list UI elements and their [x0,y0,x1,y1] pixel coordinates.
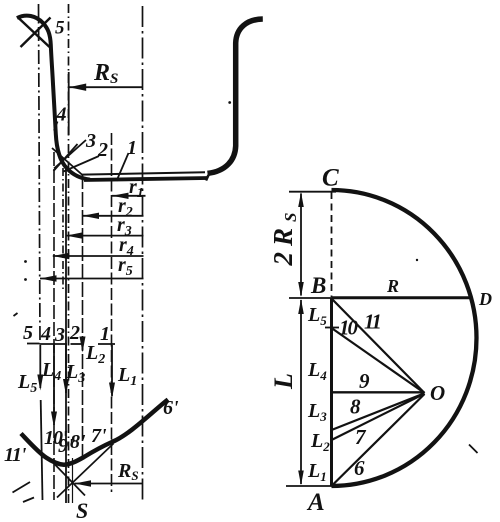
svg-text:8: 8 [350,395,361,419]
r4 arrowhead [53,253,70,259]
tick row segment a [27,343,40,345]
svg-text:10: 10 [339,316,359,340]
dashed C-B line [331,192,333,297]
svg-text:5: 5 [23,322,33,344]
X mark fillet stroke 1 [52,148,83,176]
r5 dimension line [40,278,144,280]
cup wall profile (thick) [208,19,263,173]
svg-text:3: 3 [54,324,65,346]
tick row segment c [71,343,83,345]
svg-text:O: O [430,381,445,405]
L3 arrow shaft [65,345,67,393]
B tick [289,297,332,299]
pass line 4 [53,152,55,500]
axis tick L5/L4 [325,327,339,329]
stray dash left margin [14,313,18,316]
svg-text:L4: L4 [307,359,327,383]
2Rs dimension line [300,194,302,296]
svg-text:2: 2 [69,322,80,344]
L2 arrow shaft [82,345,84,350]
leader 4 [54,122,58,131]
fan line 9 [332,391,425,393]
L5 arrow shaft [39,345,41,388]
L dimension line [300,300,302,484]
r4 dimension line [53,255,144,257]
svg-text:L5: L5 [307,304,327,328]
fan line 6 [332,394,425,486]
pass line 3 [65,166,67,503]
centerline axis B (x=69 dash-dot) [68,4,70,505]
extension line at Rs arrow [68,72,70,135]
fan line 11 [332,299,425,394]
tick row segment b [40,343,68,345]
fan line 10 [332,328,425,393]
svg-text:L2: L2 [310,430,330,454]
stray dot left margin 2 [24,278,27,281]
axis B-A thick [330,298,333,487]
short dash-dot centerline in r-dim zone [62,168,64,292]
pass line 2 [82,174,84,457]
svg-text:6: 6 [354,456,365,480]
stray diagonal mark bottom right [469,445,478,454]
svg-text:6': 6' [163,397,179,419]
sheet edge end blob [206,175,209,181]
svg-text:2RS: 2RS [268,207,300,267]
leader 3 [54,140,86,169]
leader 2 [64,156,100,172]
svg-text:L1: L1 [117,364,137,389]
svg-text:L4: L4 [41,359,61,384]
r5 arrowhead [40,275,57,281]
svg-text:L3: L3 [307,400,327,424]
C tick [289,191,336,193]
svg-text:L5: L5 [17,371,37,396]
S cross stroke [53,462,86,496]
2Rs top arrowhead [298,192,304,207]
leader 1 [117,153,129,181]
S ray to 7' [57,444,114,498]
r2 arrowhead [83,213,100,219]
developed curve 6'-11' (thick) [21,400,168,465]
cup bottom inner thin line [82,172,205,174]
2Rs bottom arrowhead [298,282,304,297]
svg-text:L1: L1 [307,460,327,484]
svg-text:11: 11 [364,310,380,334]
X mark top stroke 2 [21,18,51,48]
r3 arrowhead [66,232,83,238]
tick row segment d [98,343,115,345]
svg-text:8': 8' [70,431,86,453]
svg-text:7: 7 [355,425,367,449]
L4 arrow shaft [53,345,55,425]
cup bottom outer thick line [84,178,208,180]
svg-text:RS: RS [117,460,139,483]
R line B-D thick [332,296,472,299]
r2 dimension line [83,215,144,217]
fan line 7 [332,394,425,440]
r1 dimension line [112,195,146,197]
bottom-left dash-dot diagonal dash 2 [23,498,34,503]
r1 arrowhead [112,193,129,199]
short line near S [72,458,74,503]
stray dot left margin 1 [24,260,27,263]
L3 arrowhead [63,379,69,395]
speck on cup wall [228,101,231,104]
svg-text:RS: RS [93,60,118,87]
Rs bottom dimension line [75,483,143,485]
L1 arrowhead [109,383,115,399]
svg-text:7': 7' [91,425,107,447]
svg-text:11': 11' [4,444,27,466]
svg-text:S: S [76,498,88,522]
Rs bottom arrowhead [75,480,92,487]
X mark top stroke 1 [18,17,50,47]
bottom-left dash-dot diagonal dash 1 [13,482,31,493]
svg-text:3: 3 [85,130,96,152]
svg-text:4: 4 [56,104,67,126]
svg-text:1: 1 [127,137,137,159]
svg-text:4: 4 [40,323,51,345]
flange curve pass 5 (thick) [17,16,90,180]
L5 arrowhead [37,375,43,391]
svg-text:R: R [386,276,399,296]
svg-text:L: L [269,373,298,390]
svg-text:D: D [478,289,492,309]
svg-text:9: 9 [359,369,370,393]
pass line 5 [41,400,43,500]
A tick [286,485,332,487]
Rs top dimension line [69,86,142,88]
Rs top arrowhead [69,84,86,91]
speck right diagram [416,259,418,261]
svg-text:5: 5 [55,18,65,39]
fan line 8 [332,393,425,430]
X mark fillet stroke 2 [54,144,78,171]
svg-text:B: B [310,273,326,298]
L2 arrowhead [80,337,86,353]
L top arrowhead [298,299,304,314]
L bottom arrowhead [298,471,304,486]
r3 dimension line [66,235,144,237]
svg-text:1: 1 [100,323,110,345]
svg-text:A: A [306,489,325,516]
semicircle arc CDA [332,190,477,486]
L1 arrow shaft [111,345,113,396]
pass line 1 [111,133,113,492]
svg-text:C: C [322,165,339,192]
centerline axis C (main axis x=142.5 dash-dot) [142,6,144,500]
centerline axis A (left dash-dot) [39,4,41,344]
svg-text:L2: L2 [85,342,105,367]
L4 arrowhead [51,412,57,428]
svg-text:2: 2 [97,139,108,161]
